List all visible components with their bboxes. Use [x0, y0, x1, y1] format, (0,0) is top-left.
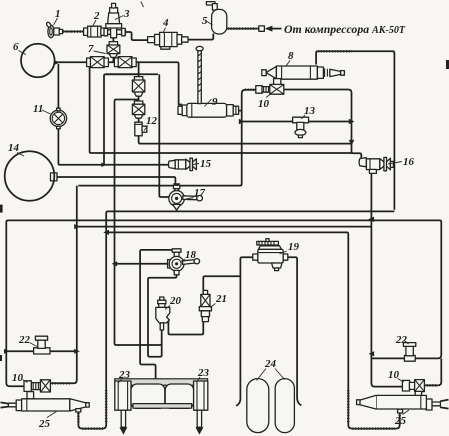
junction node on bus 164.8 at x=104	[101, 163, 107, 167]
wire from valve 12 to bus y=143.6	[139, 136, 353, 144]
svg-text:10: 10	[258, 98, 270, 110]
label 4	[162, 17, 169, 33]
union 10 top on loop edge	[256, 79, 284, 95]
svg-text:17: 17	[194, 187, 206, 199]
junction node on loop bottom left corner	[239, 119, 245, 124]
svg-text:7: 7	[88, 43, 94, 55]
antifreezer 5	[206, 2, 226, 34]
valve 16	[359, 157, 393, 173]
wire right border lower segment to union 10 right hose	[423, 358, 441, 385]
svg-text:22: 22	[395, 334, 408, 346]
cock 18	[168, 249, 200, 275]
safety valve 4	[148, 32, 188, 49]
union C on drop pipe	[132, 77, 144, 97]
drain valve 13	[293, 117, 309, 137]
air bellows 24 right	[275, 379, 294, 433]
union 2	[84, 26, 106, 37]
junction node cock 18 left feed	[112, 261, 118, 266]
junction node below hand valve 17 on bus 211.5	[173, 206, 180, 211]
junction node on right loop edge at bus 143.6	[349, 140, 355, 146]
svg-text:16: 16	[403, 156, 415, 168]
check valve 7	[107, 42, 120, 58]
wire branch y=74 linking verticals x=104 and x=159.3	[106, 73, 159, 75]
label 10 top	[258, 94, 271, 110]
wire comp22-left line y=351.3	[6, 350, 77, 352]
label 9	[205, 96, 219, 108]
arrow from compressor	[259, 26, 282, 32]
junction node tank 14 outlet	[51, 173, 58, 181]
label 10 bottom left	[12, 372, 28, 384]
svg-text:9: 9	[212, 96, 218, 108]
wire gauge line from tank 6 down through gauge 11 to bus y=164.8	[58, 64, 169, 165]
junction node on valve16 drop at bus 220.4	[368, 217, 374, 222]
wire valve 16 bottom drop to union 10 right side	[371, 173, 403, 387]
wire bus y=211.5 from corner x=106.2 to right vertical	[78, 211, 394, 428]
wire union 10 right bottom port into right cylinder 25	[417, 392, 419, 397]
label 10 bottom right	[388, 369, 404, 382]
wire from cock 18 top up over and down to brake chambers 23	[140, 250, 177, 382]
svg-text:12: 12	[146, 115, 158, 127]
cross fitting under regulator 3	[104, 27, 126, 38]
svg-text:18: 18	[185, 249, 197, 261]
brake valve 9	[178, 103, 239, 117]
wire valve 21 top up and right into valve 19 left drop	[203, 276, 240, 294]
wire vertical x=159.3 from y=74 down to hand valve 17 left port	[159, 74, 168, 197]
wire union 10 left bottom port into cylinder 25	[29, 392, 31, 400]
valve 20	[156, 297, 170, 330]
wire branch y=99.5 from union joint to vertical x=114.5	[115, 100, 162, 346]
wire comp22-right on bus y=358.4 to vertical x=371.4	[371, 357, 404, 359]
junction node x=76.8 at comp 22 line	[74, 349, 80, 354]
svg-text:От компрессора АК-50Т: От компрессора АК-50Т	[284, 22, 406, 36]
label 1	[54, 8, 61, 25]
scan edge marks	[0, 205, 3, 213]
svg-text:3: 3	[123, 8, 130, 20]
label 17	[184, 187, 206, 200]
label 13	[302, 105, 316, 119]
svg-text:5: 5	[202, 15, 208, 27]
label 22 left	[18, 334, 37, 347]
brake valve 19	[253, 239, 288, 271]
svg-text:10: 10	[388, 369, 400, 381]
drain cock 22 left	[34, 336, 50, 354]
wire condenser 8 feed up and over to right vertical x=394.4	[316, 51, 394, 210]
union 10 bottom left	[24, 380, 50, 399]
label 23 left	[118, 369, 131, 383]
svg-text:21: 21	[215, 293, 227, 305]
label 18	[180, 249, 197, 262]
label 11	[33, 103, 51, 115]
junction node valve16 drop at bus 358.4	[369, 351, 375, 356]
brake cylinder 25 left	[1, 399, 90, 412]
svg-text:4: 4	[162, 17, 169, 29]
label 20	[165, 295, 182, 310]
wire hose from antifreezer 5 to compressor arrow	[227, 28, 260, 30]
svg-text:13: 13	[304, 105, 316, 117]
wire bus y=226.6 from junction x=76.8 to valve16 drop	[78, 226, 372, 228]
label 7	[88, 43, 106, 55]
wire loop bottom bus y=121.5 through drain valve 13	[242, 121, 352, 123]
label 14	[8, 142, 24, 156]
wire tank 14 outlet bus y=177 then down to junction on bus 185.5	[57, 177, 176, 184]
condenser 8	[262, 66, 345, 79]
label 5	[202, 15, 213, 27]
junction node at tank 6 outlet	[55, 61, 61, 65]
svg-text:25: 25	[38, 418, 51, 430]
wire bus y=185.5 from corner x=76.8 to loop left vertical x=241.7 up to valve 9 right	[78, 94, 241, 186]
label 12	[144, 115, 158, 131]
wire vertical x=76.8 from bus 185.5 down, hose to fitting 10 left bottom	[51, 186, 77, 384]
wire stub from junction x=114.5 y=263.8 to cock 18 left port	[117, 263, 169, 265]
junction node left border at comp 22 line	[4, 349, 10, 354]
tank 14	[5, 151, 55, 201]
label 3	[115, 2, 144, 21]
wire from regulator cross to safety valve 4	[125, 32, 149, 40]
wire bus y=220.4 with left and right borders	[6, 220, 24, 386]
junction node on bus 185.5 at hand valve 17	[173, 183, 180, 188]
wire U link valve 20 to valve 21	[167, 318, 204, 335]
label 22 right	[395, 334, 409, 346]
label 25 left	[38, 412, 57, 431]
svg-text:15: 15	[200, 158, 212, 170]
pressure gauge 11	[50, 108, 66, 129]
wire from valve 4 to antifreezer 5	[188, 34, 214, 40]
tyre valve 12	[135, 122, 147, 136]
svg-text:2: 2	[93, 10, 100, 22]
svg-text:23: 23	[118, 369, 131, 381]
valve 21	[199, 290, 211, 321]
junction node on x=76.8 at bus 226.6	[74, 224, 80, 229]
label 19	[280, 241, 300, 254]
wire corner down from pipe to brake valve 9 left port	[177, 62, 182, 104]
wire main pipe from tank 6 to brake valve 9 at y=62	[55, 61, 178, 63]
svg-text:11: 11	[33, 103, 43, 115]
wire elbow from loop left vertical to hose into union 10 top	[242, 90, 257, 94]
union 10 bottom right	[402, 380, 424, 397]
label 25 right	[394, 410, 409, 427]
wire bus y=232.4 from junction x=106 to corner x=348.3 down to right cylinder hose	[106, 232, 400, 428]
svg-text:22: 22	[18, 334, 31, 346]
union B on main pipe	[114, 57, 136, 68]
svg-text:14: 14	[8, 142, 20, 154]
svg-text:10: 10	[12, 372, 24, 384]
label 8	[286, 50, 295, 67]
pick-up valve 15	[169, 158, 197, 170]
brake chambers 23 assembly	[115, 379, 208, 435]
svg-text:8: 8	[288, 50, 294, 62]
svg-text:23: 23	[197, 367, 210, 379]
label 6	[13, 41, 26, 55]
drain cock 22 right	[403, 343, 415, 362]
wire hose from connector 1 to union 2	[62, 31, 85, 33]
svg-text:6: 6	[13, 41, 19, 53]
connector 1	[46, 22, 63, 38]
svg-text:20: 20	[169, 295, 182, 307]
pressure regulator 3	[106, 3, 122, 28]
wire vertical x=104 down to bus y=164.8	[104, 74, 139, 164]
label 2	[93, 10, 101, 27]
brake valve 9 lever rod	[196, 46, 203, 103]
hand brake valve 17	[169, 185, 203, 210]
label 23 right	[197, 367, 210, 383]
label 15	[193, 158, 212, 170]
wire valve 19 left port to bellows left feed	[236, 257, 253, 406]
wire branch down from pipe at x=89.6 to bus y=153	[90, 62, 353, 153]
wire from cock 18 bottom down and over to x=161.7 node	[148, 275, 177, 357]
wire from cross down to check valve 7	[112, 38, 114, 62]
label 16	[388, 156, 415, 168]
wire valve 19 right port to bellows right feed	[287, 257, 301, 405]
union D on drop pipe	[132, 101, 144, 118]
tank 6	[21, 44, 55, 78]
wire vertical pipe x=138.6 from main pipe through unions to valve 12	[138, 62, 140, 122]
svg-text:25: 25	[394, 415, 407, 427]
brake cylinder 25 right	[357, 395, 449, 413]
wire brake valve 9 right stub	[239, 110, 242, 112]
union A on main pipe	[87, 57, 109, 68]
wire loop top edge from union 10 to right edge down to valve 16	[284, 90, 362, 161]
svg-text:24: 24	[264, 358, 277, 370]
label 24	[257, 358, 285, 381]
air bellows 24 left	[247, 379, 269, 433]
label 21	[210, 293, 227, 308]
junction node on x=106.2 at bus 232.4	[103, 230, 109, 235]
svg-text:19: 19	[288, 241, 300, 253]
junction node on loop bottom right corner	[349, 119, 355, 124]
